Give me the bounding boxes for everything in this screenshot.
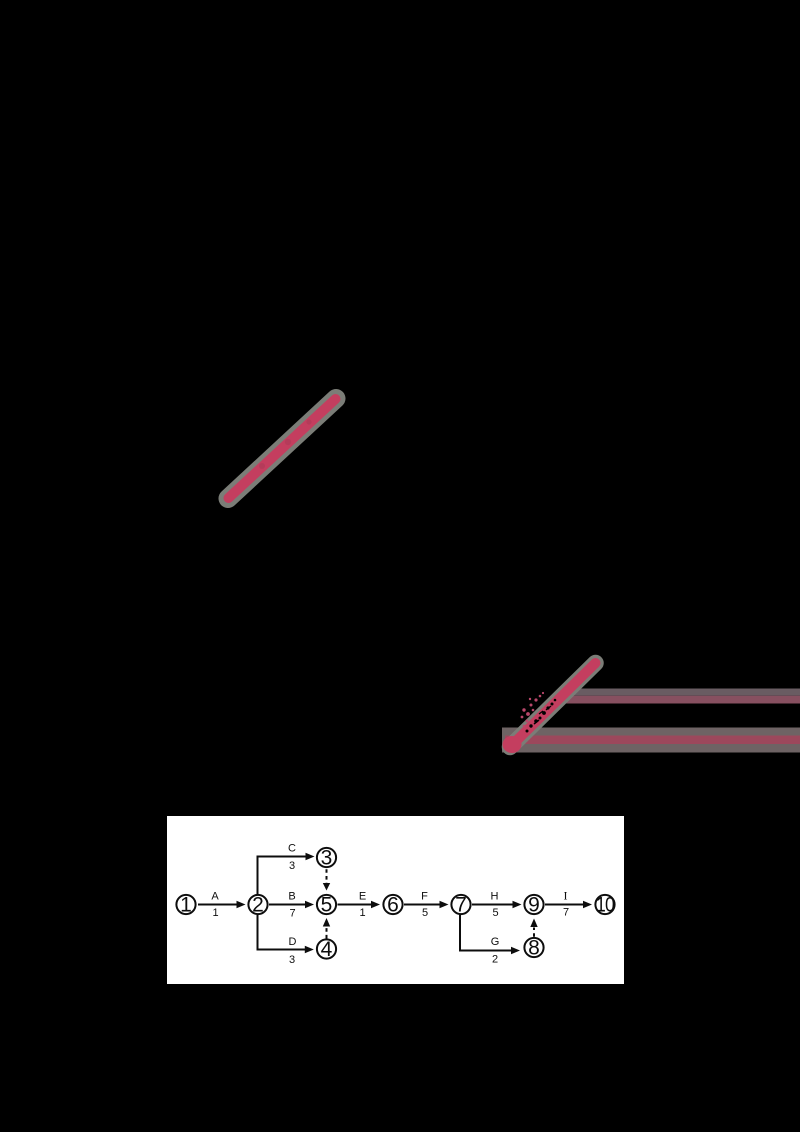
- svg-text:D: D: [289, 936, 297, 948]
- svg-text:7: 7: [289, 908, 295, 920]
- svg-text:F: F: [421, 891, 428, 903]
- svg-text:2: 2: [252, 894, 264, 917]
- svg-text:3: 3: [289, 860, 295, 872]
- svg-text:8: 8: [528, 937, 540, 960]
- svg-text:A: A: [211, 891, 219, 903]
- svg-text:H: H: [491, 891, 499, 903]
- svg-text:G: G: [491, 936, 500, 948]
- svg-text:10: 10: [596, 893, 615, 917]
- svg-text:1: 1: [359, 907, 365, 919]
- svg-text:6: 6: [387, 894, 399, 917]
- svg-text:E: E: [359, 891, 366, 903]
- svg-text:5: 5: [422, 907, 428, 919]
- svg-text:I: I: [564, 889, 568, 903]
- svg-text:1: 1: [212, 907, 218, 919]
- svg-text:1: 1: [180, 894, 192, 917]
- svg-text:7: 7: [455, 894, 467, 917]
- svg-text:9: 9: [528, 894, 540, 917]
- svg-text:4: 4: [321, 938, 333, 961]
- svg-text:2: 2: [492, 954, 498, 966]
- svg-text:7: 7: [563, 907, 569, 919]
- svg-text:5: 5: [321, 894, 333, 917]
- svg-text:B: B: [288, 891, 295, 903]
- svg-text:3: 3: [321, 847, 333, 870]
- svg-text:C: C: [288, 843, 296, 855]
- svg-text:3: 3: [289, 954, 295, 966]
- svg-text:5: 5: [492, 907, 498, 919]
